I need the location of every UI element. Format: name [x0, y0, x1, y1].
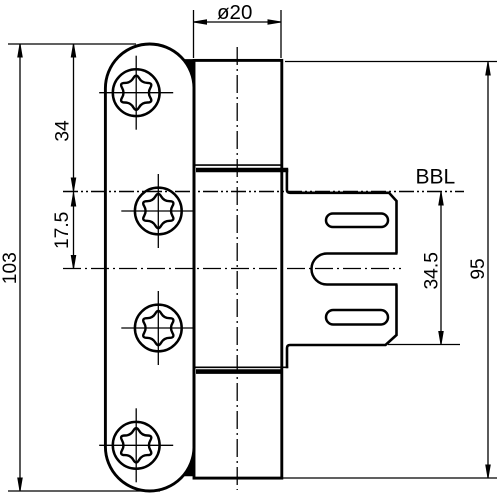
- svg-text:95: 95: [468, 258, 489, 279]
- svg-text:BBL: BBL: [416, 166, 456, 189]
- open-ended centre slot in frame plate: [311, 254, 397, 285]
- screw 4 torx star: [121, 428, 151, 462]
- svg-text:17.5: 17.5: [52, 212, 73, 249]
- svg-text:34.5: 34.5: [422, 252, 443, 289]
- screw 1 head circle: [113, 69, 160, 116]
- dim 34.5 line: [440, 192, 442, 345]
- screw 4 crosshair: [99, 444, 173, 446]
- screw 3 crosshair: [121, 327, 195, 329]
- junction wedge top: [183, 59, 195, 88]
- BBL reference line: [63, 191, 464, 193]
- dim 103 extension lines: [8, 43, 136, 45]
- dim dia20 line: [194, 21, 282, 23]
- lower slot in frame plate: [326, 310, 388, 325]
- upper slot in frame plate: [326, 214, 388, 228]
- screw 2 crosshair: [121, 210, 195, 212]
- dim 17.5 line: [73, 192, 75, 269]
- screw 3 torx star: [143, 311, 173, 345]
- screw 1 crosshair: [99, 92, 173, 94]
- svg-text:34: 34: [53, 120, 74, 142]
- dim 95 line: [487, 62, 489, 479]
- barrel vertical centre line: [236, 47, 238, 490]
- screw 2 torx star: [143, 194, 173, 228]
- svg-text:ø20: ø20: [217, 1, 252, 24]
- screw 1 torx star: [121, 76, 151, 110]
- dim dia20 extension lines: [193, 10, 195, 58]
- junction wedge bottom: [183, 447, 195, 477]
- hinge leaf plate (door side, stadium outline): [105, 44, 194, 491]
- dim 95 extension lines: [285, 61, 497, 63]
- dim 34 line: [73, 44, 75, 192]
- lower knuckle joint lines: [194, 366, 288, 368]
- dim 103 line: [19, 44, 21, 491]
- screw 2 head circle: [135, 188, 182, 235]
- horizontal centre line of plate: [63, 268, 401, 270]
- svg-text:103: 103: [0, 252, 21, 284]
- dim 34.5 extension line: [388, 344, 460, 346]
- screw 3 head circle: [135, 305, 182, 352]
- hinge barrel (knuckle cylinder): [194, 60, 282, 478]
- upper knuckle joint lines: [194, 164, 282, 166]
- frame mounting plate outline: [287, 169, 397, 368]
- screw 4 head circle: [113, 422, 160, 469]
